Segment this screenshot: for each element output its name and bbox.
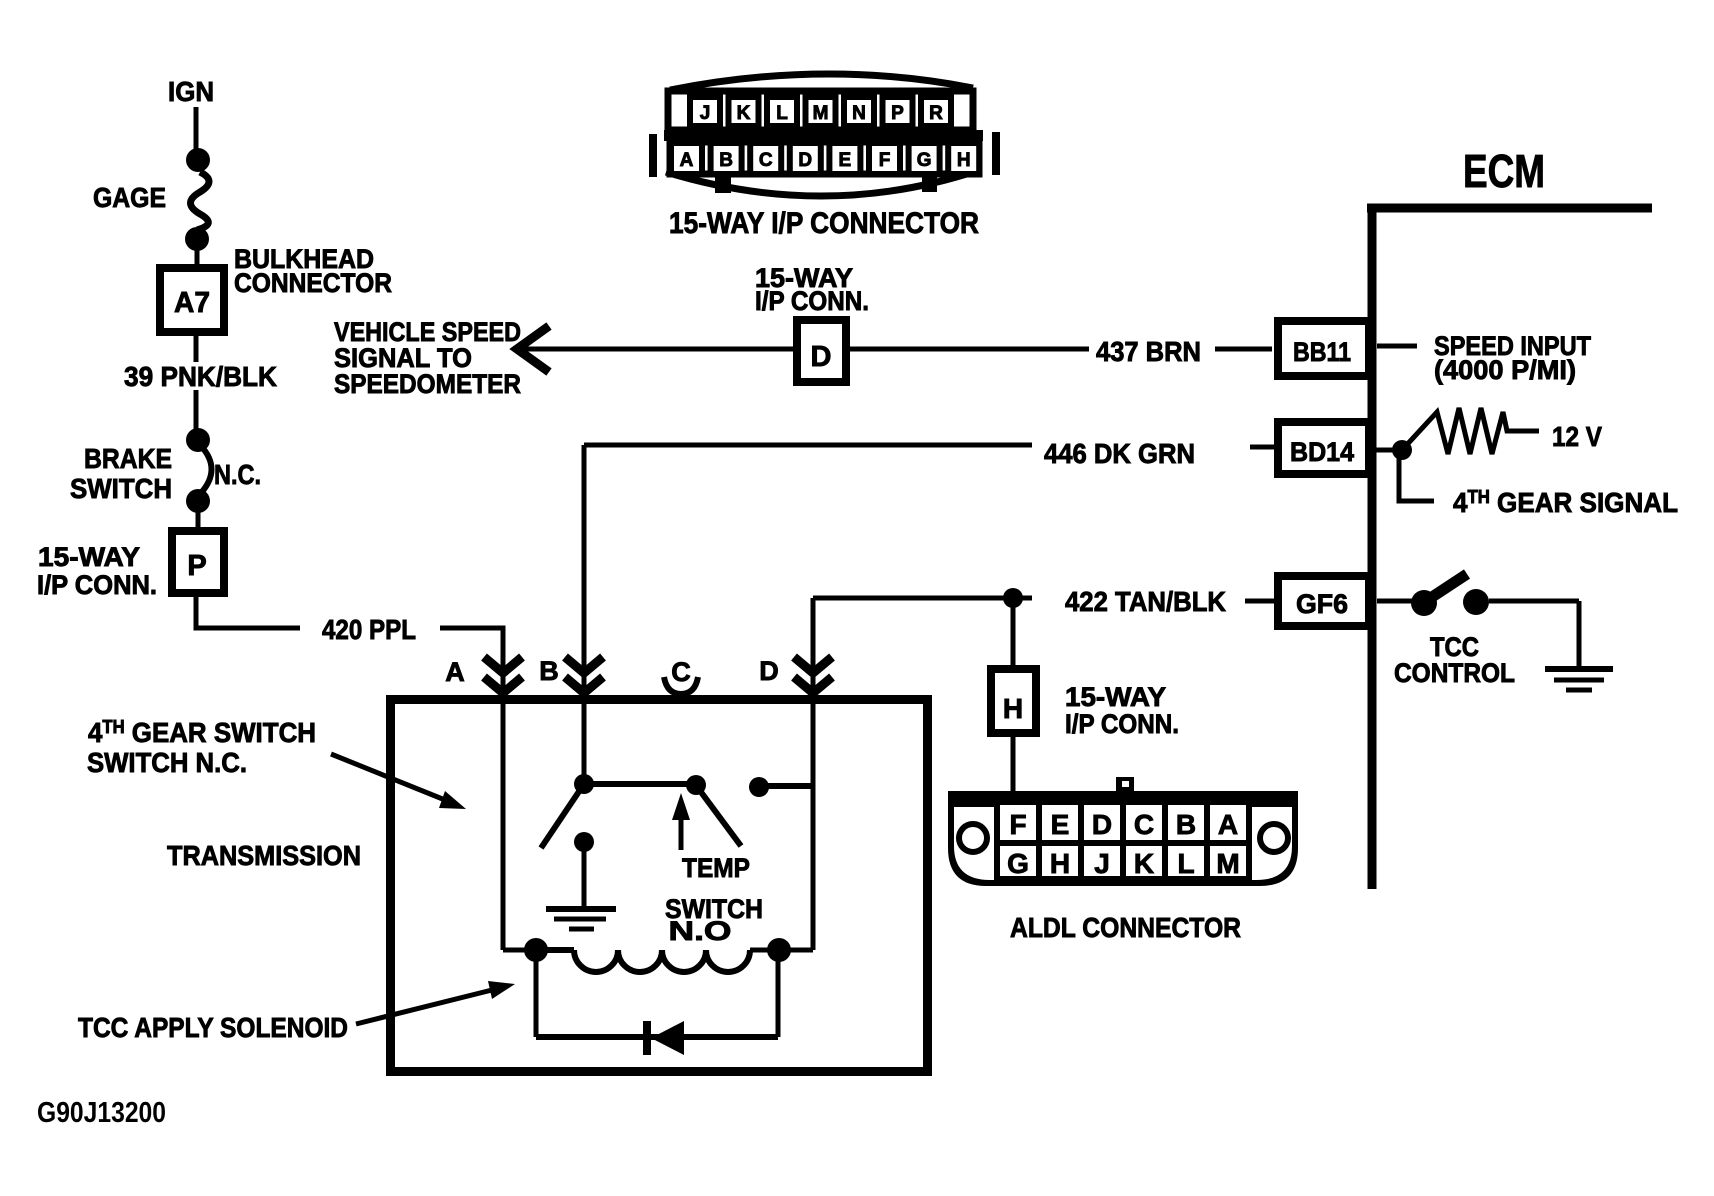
svg-text:B: B [1176,809,1196,840]
svg-text:12 V: 12 V [1552,421,1602,452]
svg-text:C: C [1134,809,1154,840]
svg-text:L: L [1177,848,1194,879]
svg-text:ALDL CONNECTOR: ALDL CONNECTOR [1010,912,1241,943]
svg-text:R: R [929,103,943,124]
svg-text:F: F [879,150,891,171]
svg-text:N.C.: N.C. [214,459,261,490]
svg-text:15-WAY: 15-WAY [1065,682,1166,712]
svg-text:K: K [1134,848,1154,879]
svg-text:C: C [759,150,773,171]
svg-text:SWITCH: SWITCH [70,473,172,504]
svg-text:B: B [719,150,733,171]
svg-text:446 DK GRN: 446 DK GRN [1044,438,1195,469]
svg-text:A7: A7 [174,287,210,319]
svg-text:15-WAY I/P CONNECTOR: 15-WAY I/P CONNECTOR [669,207,979,240]
svg-text:H: H [957,150,971,171]
svg-text:D: D [759,656,779,686]
svg-text:BRAKE: BRAKE [84,443,172,474]
svg-text:GAGE: GAGE [93,182,166,213]
svg-text:A: A [680,150,694,171]
svg-text:TCC APPLY SOLENOID: TCC APPLY SOLENOID [78,1012,348,1043]
svg-text:437 BRN: 437 BRN [1096,336,1201,367]
svg-text:TEMP: TEMP [682,853,750,883]
svg-text:SPEEDOMETER: SPEEDOMETER [334,369,521,399]
svg-text:BB11: BB11 [1293,337,1351,367]
svg-text:SWITCH N.C.: SWITCH N.C. [87,747,247,778]
svg-text:J: J [700,103,711,124]
svg-text:K: K [737,103,751,124]
svg-text:P: P [891,103,904,124]
svg-text:B: B [539,656,559,686]
svg-text:M: M [1216,848,1239,879]
svg-text:A: A [445,657,465,687]
svg-text:G90J13200: G90J13200 [37,1097,166,1129]
svg-text:I/P CONN.: I/P CONN. [37,570,157,600]
svg-text:E: E [1051,809,1070,840]
svg-text:A: A [1218,809,1238,840]
svg-text:I/P CONN.: I/P CONN. [1065,709,1179,739]
svg-text:J: J [1094,848,1110,879]
svg-text:(4000 P/MI): (4000 P/MI) [1434,355,1576,385]
svg-text:L: L [776,103,788,124]
svg-text:15-WAY: 15-WAY [38,542,140,572]
svg-text:G: G [917,150,932,171]
svg-text:CONTROL: CONTROL [1394,658,1515,688]
svg-text:422 TAN/BLK: 422 TAN/BLK [1065,586,1226,617]
svg-text:G: G [1007,848,1029,879]
svg-text:IGN: IGN [168,76,214,107]
svg-text:BD14: BD14 [1290,437,1354,467]
svg-text:39 PNK/BLK: 39 PNK/BLK [124,361,277,392]
svg-text:420 PPL: 420 PPL [322,614,416,645]
svg-text:F: F [1009,809,1026,840]
svg-text:I/P CONN.: I/P CONN. [755,286,869,316]
svg-text:D: D [811,341,832,373]
svg-text:D: D [798,150,812,171]
svg-text:H: H [1050,848,1070,879]
svg-text:CONNECTOR: CONNECTOR [234,268,392,298]
svg-text:E: E [839,150,852,171]
svg-text:P: P [187,550,206,582]
svg-text:H: H [1003,693,1023,724]
svg-text:TRANSMISSION: TRANSMISSION [167,840,361,871]
svg-text:N.O: N.O [669,916,732,946]
svg-text:N: N [852,103,866,124]
svg-text:C: C [671,657,691,687]
svg-text:M: M [813,103,829,124]
svg-text:GF6: GF6 [1296,589,1348,619]
svg-text:D: D [1092,809,1112,840]
svg-text:ECM: ECM [1463,145,1545,197]
